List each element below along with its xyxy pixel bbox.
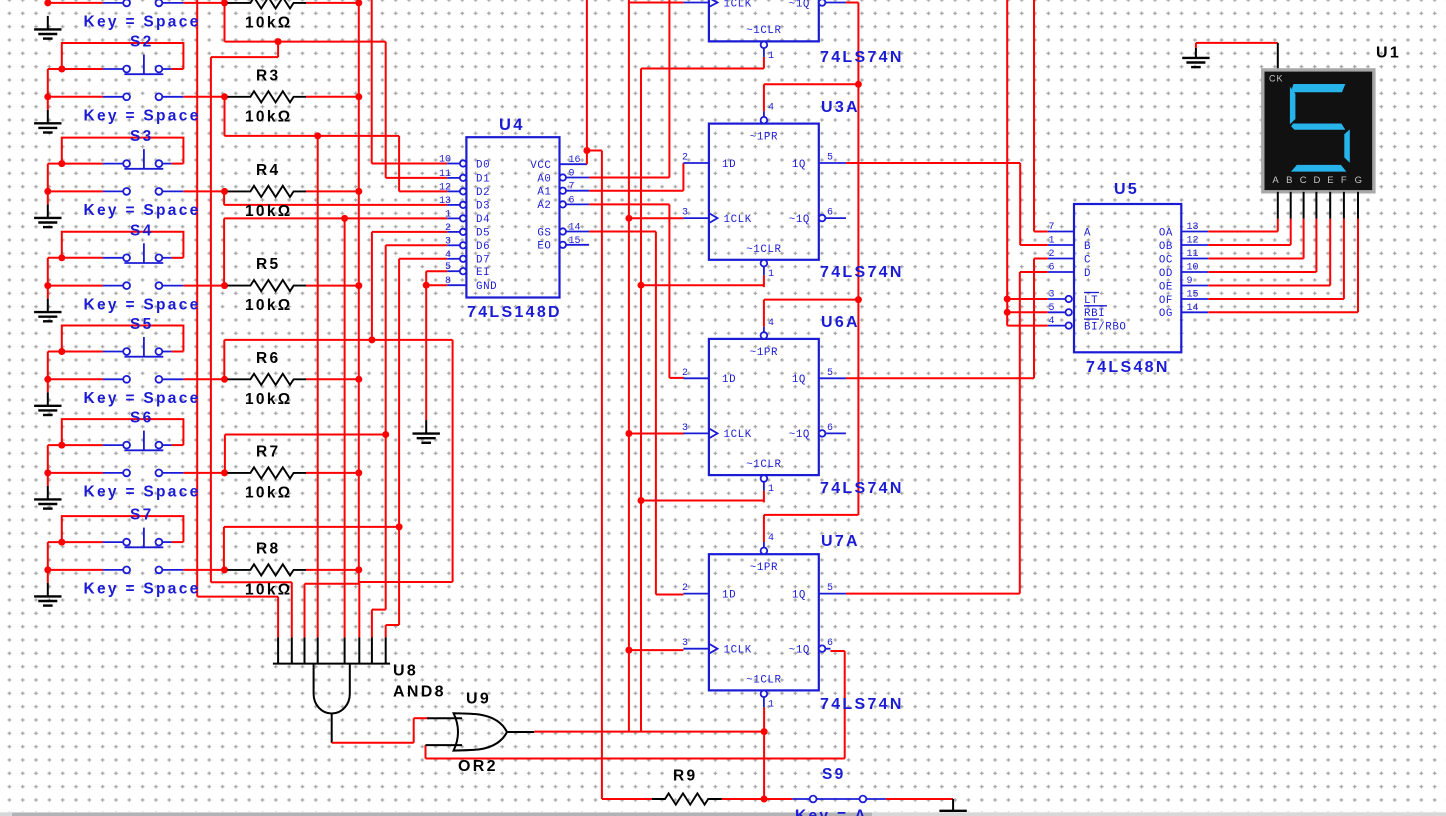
svg-text:1CLK: 1CLK (724, 214, 752, 226)
wire R6 route row (224, 339, 452, 341)
node R6 bus junction (355, 376, 362, 383)
svg-text:~1CLR: ~1CLR (746, 244, 781, 256)
node S4 lever junction (58, 254, 65, 261)
flip-flop U7A 74LS74N body (709, 554, 819, 690)
switch S1 second contacts (103, 2, 123, 4)
wire U3A 1Q to U5 B (846, 162, 1020, 164)
svg-text:10kΩ: 10kΩ (245, 297, 293, 314)
wire segment D to U5 (1315, 219, 1317, 272)
pin 3 D6 of U4 (447, 244, 460, 246)
node S4 second junction (44, 282, 51, 289)
svg-text:1D: 1D (722, 589, 736, 601)
svg-text:OE: OE (1159, 281, 1173, 293)
wire R7 route row (225, 434, 386, 436)
svg-text:2: 2 (445, 223, 451, 234)
pin 13 D3 of U4 (447, 204, 460, 206)
wire S2 lever to loop (172, 68, 184, 70)
node CLR junction U6A (638, 497, 645, 504)
wire R7 right to bus (306, 472, 359, 474)
wire net R2 top link (211, 56, 278, 58)
pin 1 ~1CLR of U6A (761, 475, 768, 482)
pin 6 ~1Q of U7A (819, 645, 826, 652)
wire S7 lever to loop (172, 541, 184, 543)
wire net R1 horizontal to AND input 1 (197, 596, 278, 598)
wire R3 jct drop (224, 97, 226, 136)
pin 11 D1 of U4 (447, 177, 460, 179)
switch S7 lever row wire (48, 541, 103, 543)
svg-text:~1PR: ~1PR (750, 347, 778, 359)
wire CK to ground (1196, 42, 1278, 44)
wire D5 feed (372, 231, 447, 233)
wire AND3 horizontal (305, 583, 359, 585)
svg-text:R3: R3 (256, 67, 280, 84)
switch S4 lever row wire (48, 257, 103, 259)
switch S4 second contacts (103, 285, 123, 287)
pin A of U1 (1277, 192, 1279, 219)
pin 3 LT of U5 (1048, 298, 1066, 300)
svg-text:OC: OC (1159, 254, 1173, 266)
pin 6 A2 of U4 (560, 201, 566, 207)
svg-text:A: A (1084, 227, 1091, 239)
pin input 2 of U8 (291, 637, 293, 663)
wire segment F to U5 (1343, 219, 1345, 299)
wire ~1PR of U3A (763, 84, 765, 111)
switch S6 second row wire left (48, 472, 103, 474)
svg-text:D0: D0 (476, 159, 490, 171)
switch S6 lever row wire (48, 444, 103, 446)
node R8 column junction (396, 523, 403, 530)
wire CLR to top flip-flop (641, 68, 764, 70)
resistor R4 (221, 188, 228, 195)
svg-text:12: 12 (439, 182, 451, 193)
svg-text:10kΩ: 10kΩ (245, 391, 293, 408)
svg-text:6: 6 (569, 195, 575, 206)
node S2 second junction (44, 93, 51, 100)
wire top feed to U5 A (1033, 0, 1035, 232)
svg-text:4: 4 (1049, 316, 1055, 327)
scrollbar track (0, 812, 1446, 816)
svg-text:D6: D6 (476, 241, 490, 253)
svg-text:3: 3 (1049, 290, 1055, 301)
svg-text:LT: LT (1084, 295, 1098, 307)
svg-text:D4: D4 (476, 214, 490, 226)
wire S4 left column (47, 258, 49, 299)
wire D2 feed (399, 190, 447, 192)
svg-text:~1PR: ~1PR (750, 132, 778, 144)
svg-text:D1: D1 (476, 174, 490, 186)
wire AND input 8 stub (385, 625, 387, 637)
ground for S3 (47, 204, 49, 218)
wire S3 lever to loop (172, 163, 184, 165)
wire net R2 vertical (210, 57, 212, 582)
wire CLK bus from top (628, 0, 630, 732)
switch S7 loop wire (62, 516, 184, 542)
svg-text:74LS74N: 74LS74N (820, 264, 904, 281)
node CLR junction U3A (638, 282, 645, 289)
svg-text:R5: R5 (256, 256, 280, 273)
svg-text:S9: S9 (822, 766, 846, 783)
svg-text:1CLK: 1CLK (724, 429, 752, 441)
svg-text:74LS48N: 74LS48N (1086, 359, 1170, 376)
switch S6 loop wire (62, 419, 184, 445)
wire segment E to U5 (1329, 219, 1331, 286)
wire top-left from edge (47, 0, 49, 3)
flip-flop top (partial) 74LS74N body (709, 0, 819, 41)
svg-text:6: 6 (827, 423, 833, 434)
pin 10 OD of U5 (1181, 271, 1208, 273)
wire R4 jct drop (223, 191, 225, 205)
svg-text:U4: U4 (499, 116, 525, 134)
wire R5 route row to D4 (224, 217, 447, 219)
wire A1 output (589, 190, 683, 192)
ground for S7 (47, 583, 49, 597)
wire VCC pull-up bus (358, 3, 360, 570)
svg-text:R9: R9 (673, 768, 697, 785)
switch S6 lever contacts (103, 444, 123, 446)
wire R8 jct rise (223, 527, 225, 570)
svg-text:CK: CK (1269, 73, 1284, 83)
svg-text:4: 4 (768, 318, 774, 329)
node R4 bus junction (355, 188, 362, 195)
wire U7A ~1Q to OR2 (831, 650, 845, 652)
wire clear net drop to R9 row (763, 707, 765, 799)
wire S9 to ground (886, 798, 953, 800)
svg-text:3: 3 (682, 423, 688, 434)
wire R5 jct rise (223, 218, 225, 285)
pin 5 1Q of U7A (819, 593, 846, 595)
wire net R1 to D0 pin (372, 163, 448, 165)
pin 3 1CLK of U6A (683, 432, 709, 434)
pin 2 1D of U3A (683, 162, 709, 164)
pin 15 EO of U4 (560, 242, 566, 248)
svg-text:C: C (1300, 175, 1307, 186)
svg-text:74LS74N: 74LS74N (820, 49, 904, 66)
svg-text:7: 7 (1049, 222, 1055, 233)
pin input 3 of U8 (304, 637, 306, 663)
wire R6 jct rise (223, 340, 225, 379)
node R7 bus junction (355, 469, 362, 476)
svg-text:~1Q: ~1Q (789, 0, 810, 10)
svg-text:9: 9 (1187, 276, 1193, 287)
switch S3 second contacts (103, 190, 123, 192)
svg-text:3: 3 (682, 638, 688, 649)
pin 2 D5 of U4 (447, 231, 460, 233)
pin 1 B of U5 (1048, 244, 1074, 246)
node S5 lever junction (58, 348, 65, 355)
svg-text:10kΩ: 10kΩ (245, 108, 293, 125)
node PR junction U3A (855, 81, 862, 88)
ground top right (1195, 48, 1197, 58)
pin 14 OG of U5 (1181, 311, 1208, 313)
node R5 AND5 tap (341, 215, 348, 222)
wire S5 left column (47, 352, 49, 393)
node S6 second junction (44, 469, 51, 476)
node R3 bus junction (355, 93, 362, 100)
svg-text:6: 6 (827, 208, 833, 219)
wire R2 jct drop (224, 3, 226, 42)
svg-text:OA: OA (1159, 227, 1173, 239)
wire CLK to U6A 1CLK (629, 433, 684, 435)
node RBI junction (1004, 309, 1011, 316)
display U1 seven-segment body (1263, 70, 1374, 192)
svg-text:2: 2 (682, 583, 688, 594)
resistor R2 (221, 0, 228, 6)
wire S3 left column (47, 164, 49, 205)
svg-text:10: 10 (1187, 263, 1199, 274)
gate U8 AND8 body (314, 664, 350, 714)
wire segment B to U5 (1290, 219, 1292, 245)
wire CLR to U3A (641, 284, 764, 286)
node VCC junction (583, 147, 590, 154)
resistor R5 (221, 282, 228, 289)
scrollbar thumb (12, 813, 872, 816)
wire ~1CLR red stub U3A (763, 275, 765, 287)
pin G of U1 (1357, 192, 1359, 219)
wire S4 lever to loop (172, 257, 184, 259)
pin 13 OA of U5 (1181, 231, 1208, 233)
node S7 second junction (44, 566, 51, 573)
pin 6 ~1Q of U3A (819, 215, 826, 222)
svg-text:B: B (1286, 175, 1292, 186)
svg-text:15: 15 (569, 236, 581, 247)
svg-text:1Q: 1Q (792, 589, 806, 601)
svg-text:16: 16 (569, 155, 581, 166)
svg-text:S7: S7 (130, 507, 154, 524)
svg-text:74LS148D: 74LS148D (467, 304, 562, 321)
svg-text:11: 11 (1187, 249, 1199, 260)
wire R3 route row (225, 135, 400, 137)
wire VCC drop from top (586, 0, 588, 164)
svg-text:4: 4 (445, 250, 451, 261)
pin input 1 of U9 (427, 717, 462, 719)
switch S5 lever contacts (103, 351, 123, 353)
switch S1 second row wire left (48, 2, 103, 4)
pin CK of U1 (1277, 43, 1279, 70)
pin 8 GND of U4 (447, 284, 466, 286)
wire U8 output to OR2 (332, 742, 414, 744)
node S2 lever junction (58, 66, 65, 73)
svg-text:EO: EO (537, 241, 551, 253)
wire A1 rise to U3A 1D (682, 163, 684, 191)
svg-text:S6: S6 (130, 410, 154, 427)
wire AND input 6 vertical (358, 582, 360, 637)
switch S2 lever contacts (103, 68, 123, 70)
svg-text:10kΩ: 10kΩ (245, 14, 293, 31)
pin output of U9 (507, 731, 534, 733)
svg-text:B: B (1084, 241, 1091, 253)
wire R7 column (385, 245, 387, 609)
wire CLR to U6A (641, 500, 764, 502)
node R6 D5 tap (368, 336, 375, 343)
resistor R9 (652, 793, 722, 804)
svg-text:S3: S3 (130, 128, 154, 145)
node OR output junction (761, 728, 768, 735)
pin 5 1Q of U3A (819, 162, 846, 164)
resistor R6 (221, 376, 228, 383)
pin 15 OF of U5 (1181, 298, 1208, 300)
svg-text:5: 5 (1049, 303, 1055, 314)
svg-text:EI: EI (476, 267, 490, 279)
svg-text:U7A: U7A (821, 533, 860, 550)
pin 4 ~1PR of U7A (761, 548, 768, 555)
wire S5 lever to loop (172, 351, 184, 353)
switch S3 loop wire (62, 138, 184, 164)
svg-text:OR2: OR2 (458, 758, 498, 775)
ground for S1 (47, 16, 49, 30)
svg-text:S4: S4 (130, 222, 154, 239)
svg-text:D7: D7 (476, 255, 490, 267)
node PR junction U6A (855, 296, 862, 303)
switch S2 lever row wire (48, 68, 103, 70)
switch S5 second row wire left (48, 378, 103, 380)
svg-text:A: A (1272, 175, 1279, 186)
wire ~1CLR red stub U6A (763, 491, 765, 503)
svg-text:~1CLR: ~1CLR (746, 25, 781, 37)
svg-text:~1PR: ~1PR (750, 562, 778, 574)
wire CLK to U3A 1CLK (629, 217, 684, 219)
svg-text:F: F (1341, 175, 1347, 186)
pin 4 BI/RBO of U5 (1048, 325, 1066, 327)
svg-text:6: 6 (827, 638, 833, 649)
wire R6 right to bus (306, 378, 359, 380)
svg-text:~1Q: ~1Q (789, 645, 810, 657)
switch S7 lever contacts (103, 541, 123, 543)
node R8 bus junction (355, 566, 362, 573)
wire segment C to U5 (1303, 219, 1305, 259)
wire R2 right to bus (306, 2, 359, 4)
svg-text:GS: GS (537, 227, 551, 239)
svg-text:74LS74N: 74LS74N (820, 480, 904, 497)
svg-text:1: 1 (768, 51, 774, 62)
svg-text:3: 3 (682, 208, 688, 219)
pin 4 ~1PR of U3A (761, 117, 768, 124)
wire A0 to top edge (668, 0, 670, 178)
pin 3 1CLK of U7A (683, 648, 709, 650)
switch S2 second row wire left (48, 96, 103, 98)
svg-text:A0: A0 (537, 173, 551, 185)
wire R3 drop to D2 (398, 136, 400, 192)
node LT junction (1004, 296, 1011, 303)
wire U7A 1Q to U5 D (846, 593, 1020, 595)
wire R8 route row (224, 526, 399, 528)
pin 2 C of U5 (1048, 258, 1074, 260)
flip-flop U6A 74LS74N body (709, 339, 819, 475)
svg-text:U8: U8 (393, 663, 418, 680)
wire segment G to U5 (1357, 219, 1359, 312)
pin 6 ~1Q of top flip-flop (819, 0, 826, 6)
switch S6 second contacts (103, 472, 123, 474)
switch S5 lever row wire (48, 351, 103, 353)
svg-text:G: G (1355, 175, 1362, 186)
op-amp U5 74LS48N body (1074, 204, 1181, 352)
svg-text:E: E (1327, 175, 1333, 186)
resistor R8 (221, 566, 228, 573)
svg-text:R4: R4 (256, 162, 280, 179)
svg-text:1: 1 (445, 209, 451, 220)
gate U9 OR2 body (454, 713, 507, 750)
wire ~1PR of U6A (763, 300, 765, 327)
svg-text:14: 14 (569, 223, 581, 234)
svg-text:AND8: AND8 (393, 684, 446, 701)
pin input 5 of U8 (344, 637, 346, 663)
svg-text:VCC: VCC (530, 160, 551, 172)
node net R2 link junction (275, 38, 282, 45)
wire S2 left column (47, 69, 49, 110)
pin 1 ~1CLR of top flip-flop (761, 42, 768, 49)
svg-text:D: D (1084, 268, 1091, 280)
pin 1 D4 of U4 (447, 217, 460, 219)
pin input 6 of U8 (358, 637, 360, 663)
pin F of U1 (1343, 192, 1345, 219)
node CLK junction U3A (625, 215, 632, 222)
wire row R3 to resistor (183, 96, 224, 98)
wire row R2 to resistor (183, 2, 224, 4)
switch S3 lever contacts (103, 163, 123, 165)
wire 1CLK feed top flip-flop (629, 2, 684, 4)
node S6 lever junction (58, 442, 65, 449)
svg-text:13: 13 (1187, 222, 1199, 233)
svg-text:10kΩ: 10kΩ (245, 203, 293, 220)
svg-text:BI/RBO: BI/RBO (1084, 321, 1126, 333)
wire row R7 to resistor (183, 472, 224, 474)
wire R6 drop right (452, 340, 454, 582)
svg-text:OD: OD (1159, 268, 1173, 280)
pin 5 1Q of U6A (819, 377, 846, 379)
wire row R6 to resistor (183, 378, 224, 380)
svg-text:~1Q: ~1Q (789, 214, 810, 226)
svg-text:Key = A: Key = A (795, 808, 868, 816)
switch S4 loop wire (62, 232, 184, 258)
svg-text:U5: U5 (1114, 181, 1139, 198)
wire VCC bus tail to AND3 row (358, 570, 360, 584)
wire R5 right to bus (306, 285, 359, 287)
pin D of U1 (1315, 192, 1317, 219)
svg-text:OG: OG (1159, 308, 1173, 320)
ground for S4 (47, 299, 49, 313)
svg-text:S2: S2 (130, 34, 154, 51)
pin 14 GS of U4 (560, 228, 566, 234)
wire net R1 vertical to AND input 1 (196, 0, 198, 597)
wire net R2 horizontal to AND input 2 (211, 581, 292, 583)
pin 3 1CLK of top flip-flop (709, 0, 718, 7)
wire ~1CLR red stub top flip-flop (763, 57, 765, 69)
pin input 2 of U9 (426, 744, 463, 746)
wire row R8 to resistor (183, 569, 224, 571)
svg-text:D: D (1314, 175, 1321, 186)
wire U6A 1Q to U5 C (846, 377, 1034, 379)
svg-text:4: 4 (768, 103, 774, 114)
wire VCC rail down to R9 (601, 151, 603, 800)
wire R7 jct rise (224, 435, 226, 473)
ground for S5 (47, 392, 49, 406)
svg-text:Key = Space: Key = Space (84, 202, 201, 219)
wire net R2 drop AND input 2 (291, 582, 293, 637)
pin 2 1D of U6A (683, 377, 709, 379)
node S3 lever junction (58, 160, 65, 167)
wire R8 column (398, 259, 400, 625)
wire GND pin row (426, 284, 447, 286)
svg-text:11: 11 (439, 169, 451, 180)
wire row R5 to resistor (183, 285, 224, 287)
svg-text:Key = Space: Key = Space (84, 390, 201, 407)
switch S4 lever contacts (103, 257, 123, 259)
wire AND input 5 vertical (344, 218, 346, 637)
svg-text:OB: OB (1159, 241, 1173, 253)
node S1 second junction (44, 0, 51, 6)
svg-text:5: 5 (827, 583, 833, 594)
svg-text:Key = Space: Key = Space (84, 484, 201, 501)
wire R8 jog to AND8 (386, 624, 399, 626)
